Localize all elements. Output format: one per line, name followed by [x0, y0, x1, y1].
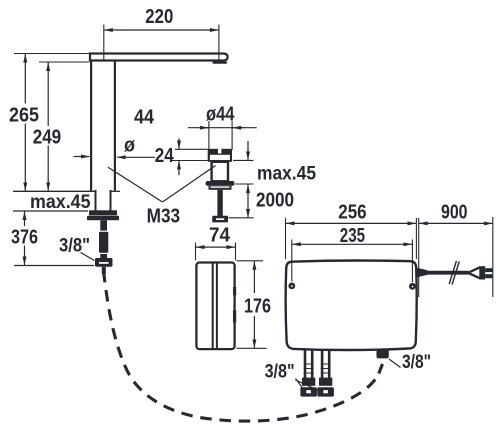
mounting sleeve body	[212, 162, 228, 182]
control small box	[196, 263, 234, 350]
svg-text:2000: 2000	[256, 190, 294, 212]
svg-text:265: 265	[9, 105, 39, 127]
faucet column	[90, 61, 92, 191]
svg-text:max.45: max.45	[30, 192, 91, 213]
inlet hose 1 nut	[302, 378, 315, 386]
faucet flange	[89, 210, 117, 215]
cable break symbol	[449, 261, 456, 284]
callout arrow left at column	[74, 156, 90, 158]
inlet hose 2	[321, 350, 324, 379]
outlet 3/8 fitting	[377, 350, 389, 359]
svg-text:M33: M33	[147, 205, 181, 227]
dim diameter 44	[208, 121, 210, 150]
faucet spout	[90, 54, 228, 61]
mounting flange	[206, 181, 235, 186]
deck line upper	[13, 190, 95, 192]
dim 256	[285, 218, 287, 259]
power cable	[418, 268, 428, 277]
svg-text:176: 176	[244, 295, 271, 317]
faucet aerator	[213, 61, 228, 64]
inlet hose 2 connector	[317, 387, 334, 396]
inlet hose 1	[304, 350, 307, 379]
svg-text:900: 900	[441, 201, 468, 223]
svg-text:3/8": 3/8"	[59, 236, 90, 257]
svg-text:24: 24	[155, 145, 175, 167]
svg-text:74: 74	[209, 225, 231, 247]
svg-text:ø: ø	[124, 135, 136, 157]
svg-text:3/8": 3/8"	[402, 352, 431, 373]
dim max.45 right	[247, 141, 249, 160]
dim 376	[24, 211, 26, 265]
dim 74	[195, 243, 197, 261]
mounting threaded rod	[217, 190, 222, 216]
dim 2000	[247, 184, 249, 217]
label M33 with V leader	[108, 167, 163, 202]
svg-text:256: 256	[338, 202, 366, 224]
svg-text:376: 376	[11, 227, 38, 249]
small box clips	[233, 287, 236, 295]
inlet hose 2 nut	[319, 378, 332, 386]
dim 265	[14, 53, 89, 55]
under-deck reference line	[14, 265, 94, 267]
svg-text:max.45: max.45	[257, 164, 316, 185]
dim 249	[39, 61, 89, 63]
small box seam	[212, 263, 214, 350]
hose dashed curve	[104, 271, 379, 421]
faucet neck below deck	[95, 190, 97, 211]
faucet shank stub	[102, 267, 106, 274]
svg-text:44: 44	[134, 107, 155, 129]
faucet shank nut	[95, 258, 113, 267]
dim 220	[103, 25, 105, 61]
dim 900	[418, 218, 420, 297]
dim 176	[237, 260, 264, 262]
inlet hose 1 connector	[300, 387, 317, 396]
svg-text:220: 220	[145, 6, 173, 28]
control box large	[286, 261, 417, 350]
faucet threaded shank	[100, 220, 107, 259]
svg-text:235: 235	[340, 225, 365, 247]
label 3/8" right	[389, 359, 401, 368]
faucet shank sleeve	[99, 232, 108, 253]
plug	[468, 267, 480, 273]
svg-text:249: 249	[33, 127, 62, 149]
mounting nut	[212, 216, 228, 223]
dim 24 cap height	[178, 138, 180, 149]
dim 235	[291, 240, 293, 282]
svg-text:ø44: ø44	[206, 104, 235, 126]
mounting sleeve cap	[208, 149, 232, 162]
deck line lower	[13, 210, 88, 212]
svg-text:3/8": 3/8"	[265, 362, 295, 383]
screw right	[409, 283, 416, 290]
callout arrow right at column	[117, 156, 155, 158]
screw left	[288, 283, 295, 290]
